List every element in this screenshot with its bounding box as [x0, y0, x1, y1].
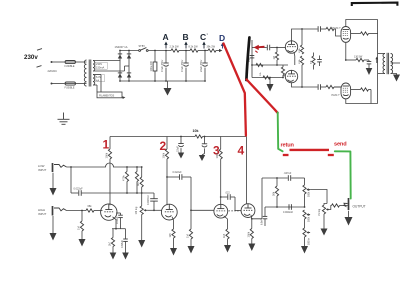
svg-text:22uF: 22uF	[176, 146, 180, 152]
wire OT secondary ground	[391, 74, 397, 75]
ground cathode2	[170, 248, 177, 256]
ground cathode bias	[366, 68, 373, 75]
wire PI input	[252, 47, 267, 49]
wire tone stack input	[261, 178, 263, 219]
ground gain pot	[138, 240, 145, 248]
wire cathode bias	[346, 59, 356, 61]
svg-text:1M: 1M	[274, 56, 276, 59]
resistor NFB 47k	[312, 56, 315, 65]
resistor tail a	[256, 63, 263, 66]
potentiometer middle 500k lin	[303, 210, 306, 219]
wire to output jack	[340, 205, 348, 207]
svg-text:47uF 450v: 47uF 450v	[160, 59, 164, 72]
wire tone top rail	[262, 177, 288, 179]
wire fuse2 to transformer	[76, 83, 86, 85]
wire volume pot ground	[323, 214, 325, 229]
svg-text:OUTPUT: OUTPUT	[353, 204, 366, 208]
resistor screen upper	[361, 32, 369, 35]
annotation red bar long	[290, 149, 330, 151]
svg-text:1k5: 1k5	[222, 233, 226, 238]
svg-text:.022: .022	[225, 192, 230, 195]
resistor plate R stage1	[109, 137, 111, 150]
triode V2b	[241, 204, 255, 218]
capacitor PI coupling	[266, 45, 268, 51]
capacitor 22uF 450v (C)	[204, 51, 206, 64]
wire PSU ground rail	[120, 80, 205, 82]
capacitor tail	[250, 55, 255, 57]
svg-text:6.8nF: 6.8nF	[261, 218, 264, 225]
wire stage3 cathode	[224, 216, 228, 229]
junction bridge bottom	[119, 80, 121, 82]
capacitor cathode bypass	[368, 60, 370, 62]
svg-text:1k5: 1k5	[168, 233, 172, 238]
wire gain pot to ground	[141, 215, 143, 241]
ground high jack	[52, 216, 54, 233]
resistor 39k 2W	[208, 49, 216, 52]
wire PI tail low	[252, 77, 283, 79]
capacitor tone 0.68uF	[264, 207, 266, 216]
resistor tail b	[263, 76, 270, 79]
svg-text:1M: 1M	[77, 226, 81, 230]
svg-text:0.0047uF: 0.0047uF	[147, 194, 150, 205]
pentode PL84 lower	[341, 83, 351, 99]
ground output jack	[348, 211, 350, 217]
ground grid leak stage3	[188, 246, 195, 254]
svg-text:100u 1W: 100u 1W	[149, 61, 153, 72]
resistor cathode bias 130 5W	[356, 58, 364, 61]
svg-text:PL84 ?: PL84 ?	[333, 27, 342, 30]
wire PI tail vertical	[251, 48, 253, 78]
transformer heater secondary label	[95, 75, 105, 82]
resistor grid stopper upper	[326, 27, 334, 30]
wire heater secondary	[93, 74, 101, 76]
transformer HV secondary label	[95, 62, 107, 69]
capacitor 47uF 450v (A)	[165, 51, 167, 64]
wire treble wiper to volume	[310, 190, 327, 204]
svg-text:230v: 230v	[24, 54, 38, 61]
rectifier diode D4	[127, 74, 131, 78]
svg-text:FILAMENTOS: FILAMENTOS	[99, 94, 115, 97]
svg-text:230V: 230V	[96, 62, 102, 66]
potentiometer bass 500k lin	[303, 228, 306, 237]
svg-text:send: send	[334, 141, 347, 147]
wire mains neutral	[52, 83, 65, 85]
wire coupling to stage3 grid	[191, 177, 214, 210]
svg-text:8.2k 2W: 8.2k 2W	[189, 45, 199, 48]
capacitor decoupling 22uF b	[204, 137, 206, 144]
ground decoupling b	[199, 155, 205, 161]
svg-text:’: ’	[207, 33, 208, 38]
wire plate rail vertical	[377, 20, 379, 104]
wire gain wiper to V1b grid	[147, 209, 162, 211]
ground tone stack	[301, 246, 308, 254]
fuse F1	[65, 61, 76, 64]
capacitor decoupling 22uF	[180, 137, 182, 144]
capacitor cathode bypass 100uF	[116, 212, 121, 214]
triode PI V3a	[285, 41, 297, 53]
capacitor 100u 1W	[154, 51, 156, 63]
svg-text:220VAC: 220VAC	[48, 69, 58, 73]
svg-text:0.022uF: 0.022uF	[74, 188, 84, 191]
fuse F2	[65, 82, 76, 85]
svg-text:100k: 100k	[105, 152, 109, 158]
wire B+ rail segment 1	[148, 50, 171, 52]
svg-text:1M log: 1M log	[134, 206, 138, 214]
svg-text:2k7: 2k7	[108, 241, 112, 246]
resistor 2.2k 2W	[171, 49, 179, 52]
svg-text:1M log: 1M log	[318, 208, 321, 216]
resistor tail vertical	[282, 65, 284, 67]
annotation red dash right	[328, 154, 334, 156]
ground cathode1 R	[110, 253, 117, 260]
wire stage2 cathode	[172, 217, 174, 229]
annotation green send wire	[335, 151, 351, 198]
wire B+ rail segment 3	[198, 50, 208, 52]
resistor 4k7 series	[140, 177, 143, 187]
svg-text:2.2k 2W: 2.2k 2W	[170, 45, 180, 48]
wire HV secondary top	[93, 60, 120, 62]
svg-text:100k: 100k	[215, 152, 219, 158]
svg-text:0.0022uF: 0.0022uF	[283, 211, 294, 214]
svg-text:FUSIBLE: FUSIBLE	[65, 65, 75, 68]
resistor plate R stage2	[166, 137, 168, 150]
wire lower screen	[351, 89, 361, 91]
ground PSU	[167, 81, 169, 88]
rectifier diode D3	[118, 74, 122, 78]
ground volume pot	[321, 229, 328, 236]
ground 1M	[79, 239, 86, 247]
wire PI plate a	[292, 29, 318, 41]
wire preamp B+ rail right	[203, 136, 247, 138]
potentiometer gain 1M log	[140, 206, 143, 215]
wire upper plate	[346, 20, 378, 27]
svg-text:INPUT: INPUT	[38, 168, 47, 172]
svg-text:0.68uF: 0.68uF	[120, 240, 124, 248]
wire preamp B+ rail left	[110, 136, 195, 138]
potentiometer volume 1M log	[324, 204, 327, 206]
wire B+ rail segment 2	[179, 50, 190, 52]
svg-text:1N4007 1A: 1N4007 1A	[115, 45, 128, 49]
wire to stage4 grid	[235, 197, 241, 211]
svg-text:47uF 450v: 47uF 450v	[180, 59, 184, 72]
resistor grid stopper lower	[326, 85, 334, 88]
capacitor 47uF 450v (B)	[185, 51, 187, 64]
wire stage1 plate	[109, 159, 111, 205]
svg-text:STBY: STBY	[139, 45, 146, 48]
resistor 10k dropper	[195, 135, 203, 138]
wire lower grid	[334, 86, 341, 88]
capacitor bright 0.0047uF	[153, 193, 155, 199]
resistor slope 56k	[276, 178, 278, 186]
svg-text:22uF 450v: 22uF 450v	[199, 59, 203, 72]
svg-text:B: B	[183, 32, 189, 42]
resistor PI plate load b	[300, 56, 303, 65]
ground earth symbol	[63, 113, 65, 120]
capacitor cathode 0.68uF	[125, 229, 127, 239]
wire bridge top rail	[120, 50, 139, 52]
wire speaker out	[391, 62, 400, 64]
svg-text:retun: retun	[281, 142, 295, 148]
capacitor coupling lower	[317, 84, 319, 90]
resistor cathode 1k5	[172, 229, 175, 238]
annotation green return wire	[278, 113, 283, 152]
resistor PI plate load a	[301, 29, 303, 45]
resistor screen lower	[361, 88, 369, 91]
triode V1b	[161, 204, 177, 220]
svg-text:1M: 1M	[186, 234, 190, 238]
ground OT secondary	[393, 75, 400, 82]
wire B+ rail to node D arrow	[216, 50, 219, 52]
svg-text:4A: 4A	[96, 78, 99, 82]
wire stage4 cathode out	[251, 215, 262, 219]
triode PI V3b	[285, 70, 297, 82]
svg-text:1: 1	[103, 138, 110, 152]
rectifier diode D1	[119, 51, 121, 82]
wire PI input stub	[251, 40, 253, 48]
transformer output OT1	[383, 54, 385, 74]
transformer T1	[84, 60, 86, 86]
resistor mix 4k7	[136, 167, 138, 172]
svg-text:500k lin: 500k lin	[308, 213, 311, 222]
resistor mix 470k	[126, 167, 128, 172]
wire high input	[67, 210, 87, 212]
triode V2a	[214, 204, 228, 218]
svg-text:C: C	[200, 32, 206, 42]
wire stage2 plate	[166, 159, 168, 205]
svg-text:INPUT: INPUT	[38, 212, 47, 216]
annotation red dash left	[283, 154, 289, 156]
svg-text:470k: 470k	[122, 175, 126, 181]
mains plug prong marks	[37, 49, 42, 51]
capacitor NFB	[317, 59, 322, 61]
annotation red line from D to preamp	[224, 44, 246, 136]
svg-text:100k: 100k	[246, 231, 250, 237]
resistor PI grid	[276, 48, 278, 53]
svg-text:4: 4	[238, 144, 245, 158]
junction filter nodes	[154, 50, 156, 52]
resistor plate R stage3	[220, 137, 222, 150]
svg-text:100k: 100k	[162, 152, 166, 158]
node B+ arrow	[376, 59, 378, 64]
svg-text:4k7: 4k7	[136, 181, 140, 186]
wire PI grid b	[283, 75, 286, 77]
wire HV secondary bottom	[93, 70, 125, 72]
pentode PL84 upper	[341, 27, 351, 43]
svg-text:10k: 10k	[193, 129, 199, 133]
junction bridge top	[119, 50, 121, 52]
ground decoupling 22uF	[178, 153, 184, 159]
resistor cathode 2k7	[112, 229, 114, 238]
annotation red line to return point	[247, 80, 278, 113]
ground cathode3	[224, 245, 231, 253]
mains terminal top	[51, 61, 53, 63]
wire upper screen	[351, 33, 361, 35]
svg-text:PL84 ?: PL84 ?	[332, 94, 341, 97]
triode V1a	[101, 204, 117, 220]
capacitor 0.0022uF	[288, 204, 290, 210]
capacitor coupling stage3 to 4	[221, 196, 228, 198]
rectifier diode D2	[128, 51, 130, 82]
capacitor coupling upper	[317, 26, 319, 32]
annotation black marker cut line	[246, 38, 249, 81]
svg-text:0.022uF: 0.022uF	[173, 171, 183, 174]
resistor cathode stage3	[226, 229, 229, 239]
heater label FILAMENTOS	[97, 92, 122, 98]
wire lower cathode loop	[346, 99, 378, 104]
wire PI tail mid	[252, 64, 288, 66]
svg-text:FUSIBLE: FUSIBLE	[65, 87, 75, 90]
annotation red arrow at PI input	[254, 45, 259, 50]
ground low jack	[52, 173, 54, 188]
wire fuse1 to transformer	[76, 61, 86, 63]
svg-text:D: D	[219, 33, 225, 43]
svg-text:39k 2W: 39k 2W	[207, 45, 216, 48]
jack OUTPUT	[348, 198, 350, 210]
resistor 8.2k 2W	[190, 49, 198, 52]
annotation black marker bar top right	[352, 3, 398, 6]
wire stage1 cathode	[113, 217, 117, 229]
resistor grid leak 1M	[81, 211, 83, 222]
svg-text:130 5W: 130 5W	[354, 56, 363, 59]
ground cathode4	[248, 244, 255, 252]
wire stage4 plate feed	[246, 137, 248, 204]
svg-text:500k lin: 500k lin	[308, 188, 311, 197]
wire volume wiper out	[330, 206, 332, 210]
svg-text:150mA: 150mA	[96, 66, 104, 70]
resistor grid leak stage3	[190, 210, 192, 229]
wire upper cathode	[345, 42, 347, 60]
mains terminal bottom	[51, 83, 53, 85]
svg-text:100uF: 100uF	[115, 216, 119, 224]
wire low branch down	[70, 167, 72, 193]
wire mains live	[52, 61, 65, 63]
wire PI cathode a	[293, 52, 296, 65]
svg-text:56k: 56k	[272, 191, 276, 196]
potentiometer treble 500k lin	[304, 178, 306, 185]
svg-text:2: 2	[160, 139, 167, 153]
svg-text:A: A	[163, 32, 169, 42]
svg-text:500 lin: 500 lin	[308, 237, 311, 245]
wire gain pot feed	[141, 167, 143, 177]
wire stage3 plate	[220, 159, 222, 204]
wire tone mid rail	[265, 206, 305, 208]
resistor output series	[332, 204, 340, 207]
ground PI tail	[269, 78, 271, 85]
ground cathode1 C	[122, 253, 129, 260]
resistor cathode stage4	[251, 219, 253, 229]
svg-text:.047uF: .047uF	[284, 172, 292, 175]
wire low input	[67, 166, 104, 168]
wire PI plate b	[292, 83, 318, 87]
